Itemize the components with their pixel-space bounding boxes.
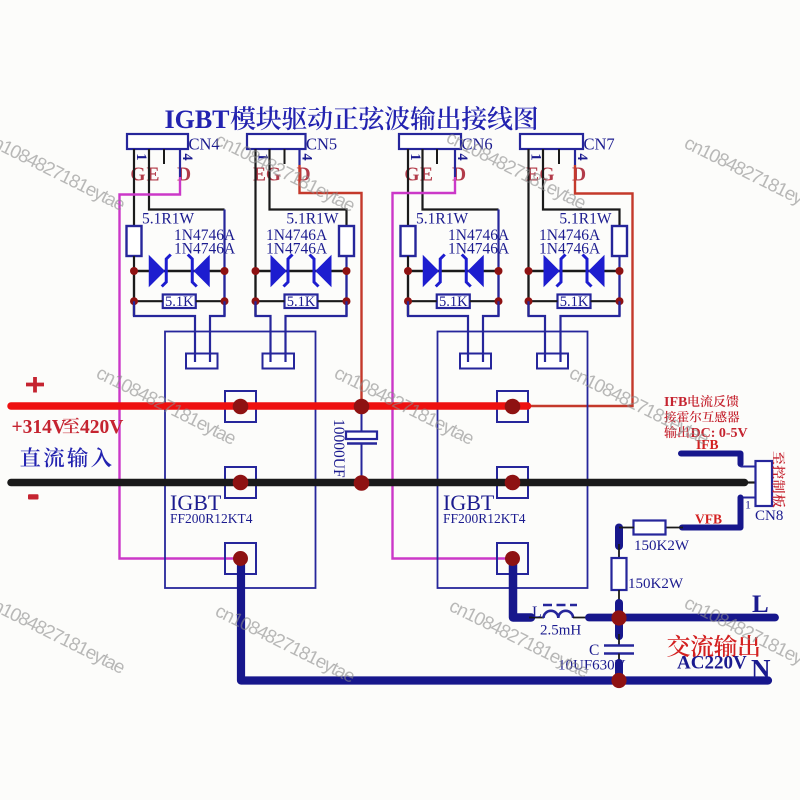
- wire CN7 D to +bus (red): [524, 165, 633, 406]
- junction CN5 gate-5.1K: [252, 297, 260, 305]
- wire CN4 emitter node vertical: [223, 210, 225, 317]
- CN5 pin 2: [269, 149, 271, 164]
- CN4 pin 1: [133, 149, 135, 164]
- IGBT1 midpoint terminal: [225, 467, 256, 498]
- junction CN6 gate-zener: [404, 267, 412, 275]
- zener diode 1N4746A right CN6: [468, 256, 483, 286]
- zener diode 1N4746A left CN6: [423, 256, 438, 286]
- label 交流输出: [667, 635, 759, 658]
- wire CN6 5.1K left lead: [408, 300, 437, 302]
- wire CN5 5.1K left lead: [256, 300, 285, 302]
- svg-text:cn1084827181eytae: cn1084827181eytae: [331, 362, 477, 449]
- wire -bus to CN8: [744, 481, 756, 483]
- junction CN5 gate-zener: [252, 267, 260, 275]
- CN7 pin 4: [574, 149, 576, 164]
- wire CN6 E to emitter node: [423, 149, 499, 210]
- N junction stub: [615, 663, 623, 674]
- junction IGBT2 midpoint: [505, 475, 521, 491]
- resistor 5.1K CN5: [285, 295, 318, 309]
- junction CN7 gate-zener: [525, 267, 533, 275]
- connector CN7: [520, 134, 583, 149]
- label IFB电流反馈: [664, 395, 739, 410]
- IGBT2 emitter terminal: [497, 543, 528, 574]
- wire CN6 D stub: [454, 149, 456, 177]
- IGBT2 gate terminal block 2: [537, 354, 568, 369]
- svg-text:cn1084827181eytae: cn1084827181eytae: [681, 592, 800, 679]
- zener diode 1N4746A right CN5: [316, 256, 331, 286]
- zener diode 1N4746A right CN4: [194, 256, 209, 286]
- wire CN7 D stub: [574, 149, 576, 165]
- wire CN5 resistor to gate node: [345, 256, 347, 316]
- wire to IGBT2 gate terminal block 1 pin 2: [483, 301, 499, 362]
- IGBT1 emitter terminal: [225, 543, 256, 574]
- wire CN7 E down: [527, 149, 529, 316]
- IGBT2 midpoint terminal: [497, 467, 528, 498]
- wire CN5 D to +bus (red): [300, 165, 362, 404]
- junction CN7 emitter-5.1K: [616, 297, 624, 305]
- wire 10000UF to -bus: [361, 444, 363, 484]
- wire CN4 G to resistor: [133, 149, 135, 226]
- resistor 5.1K CN4: [163, 295, 196, 309]
- IGBT module 2 FF200R12KT4 outline: [438, 332, 588, 589]
- zener diode 1N4746A right CN7: [589, 256, 604, 286]
- wire IGBT1 emitter to N line: [241, 559, 768, 681]
- CN6 pin 4: [454, 149, 456, 164]
- capacitor 10000UF plate+: [346, 432, 377, 440]
- svg-text:cn1084827181eytae: cn1084827181eytae: [212, 600, 358, 687]
- wire CN5 G over to resistor: [270, 149, 347, 226]
- junction CN5 emitter-zener: [343, 267, 351, 275]
- wire CN4 D to IGBT1 gate terminal (magenta): [120, 177, 237, 559]
- wire 150K to stub: [618, 590, 620, 604]
- resistor 150K2W horizontal: [634, 521, 666, 535]
- wire CN4 5.1K left lead: [134, 300, 163, 302]
- IGBT1 gate terminal block 1: [186, 354, 218, 369]
- wire CN4 right node: [223, 271, 225, 316]
- junction L line: [611, 610, 626, 625]
- CN7 pin 3: [558, 149, 560, 164]
- CN4 pin 3: [163, 149, 165, 164]
- wire CN6 zener row: [408, 270, 499, 272]
- label 输出DC 0-5V: [664, 426, 747, 441]
- label minus: [28, 494, 39, 499]
- capacitor C plate bottom: [604, 652, 634, 655]
- IGBT module 1 FF200R12KT4 outline: [165, 332, 316, 589]
- svg-text:cn1084827181eytae: cn1084827181eytae: [0, 128, 128, 215]
- zener diode 1N4746A left CN4: [149, 256, 164, 286]
- CN4 pin 2: [148, 149, 150, 164]
- VFB chain stub upper: [615, 528, 623, 547]
- resistor 5.1R1W CN7: [612, 226, 627, 256]
- wire CN4 resistor to gate node: [133, 256, 135, 316]
- wire to IGBT2 gate terminal block 2 pin 1: [529, 301, 546, 362]
- wire CN4 5.1K right lead: [196, 300, 225, 302]
- IGBT1 collector terminal: [225, 391, 256, 422]
- junction CN6 emitter-5.1K: [495, 297, 503, 305]
- wire CN5 left node: [254, 271, 256, 316]
- junction CN6 emitter-zener: [495, 267, 503, 275]
- wire CN6 D to IGBT2 gate terminal (magenta): [393, 177, 509, 559]
- CN5 pin 1: [255, 149, 257, 164]
- resistor 150K2W vertical: [612, 558, 627, 590]
- IGBT2 gate terminal block 1: [460, 354, 491, 369]
- CN5 pin 3: [284, 149, 286, 164]
- label +314V至420V: [12, 417, 124, 438]
- junction 10000UF plus: [354, 399, 370, 415]
- wire to IGBT1 gate terminal block 2 pin 1: [256, 301, 271, 362]
- wire CN6 resistor to gate node: [407, 256, 409, 316]
- junction CN6 gate-5.1K: [404, 297, 412, 305]
- wire to IGBT1 gate terminal block 1 pin 2: [210, 301, 225, 362]
- junction CN7 emitter-zener: [616, 267, 624, 275]
- resistor 5.1K CN6: [437, 295, 470, 309]
- wire CN6 left node: [407, 271, 409, 316]
- VFB chain stub lower: [615, 603, 623, 636]
- svg-text:cn1084827181eytae: cn1084827181eytae: [446, 595, 592, 682]
- wire to IGBT2 gate terminal block 2 pin 2: [561, 301, 620, 362]
- CN5 pin 4: [299, 149, 301, 164]
- +314V DC bus (red): [11, 402, 528, 410]
- junction CN7 gate-5.1K: [525, 297, 533, 305]
- wire VFB to 150K2W: [666, 527, 683, 529]
- svg-text:cn1084827181eytae: cn1084827181eytae: [443, 126, 589, 213]
- CN7 pin 2: [542, 149, 544, 164]
- IFB wire: [681, 454, 741, 465]
- junction IGBT1 emitter: [233, 551, 248, 566]
- capacitor 10000UF plate-: [347, 442, 377, 445]
- wire C to N junction: [618, 654, 620, 667]
- junction CN4 emitter-zener: [221, 267, 229, 275]
- resistor 5.1R1W CN5: [339, 226, 354, 256]
- junction IGBT1 midpoint: [233, 475, 249, 491]
- IGBT1 gate terminal block 2: [263, 354, 295, 369]
- label 接霍尔互感器: [664, 411, 739, 423]
- wire CN7 5.1K left lead: [529, 300, 558, 302]
- svg-text:cn1084827181eytae: cn1084827181eytae: [0, 591, 128, 678]
- wire CN7 resistor to gate node: [618, 256, 620, 316]
- wire CN5 D stub: [298, 149, 300, 165]
- connector CN8: [756, 461, 773, 506]
- wire CN6 right node: [497, 271, 499, 316]
- junction IGBT1 collector: [233, 399, 249, 415]
- resistor 5.1K CN7: [558, 295, 591, 309]
- wire to IGBT2 gate terminal block 1 pin 1: [408, 301, 468, 362]
- wire CN7 5.1K right lead: [591, 300, 620, 302]
- junction IGBT2 emitter: [505, 551, 520, 566]
- wire CN5 E down: [254, 149, 256, 316]
- wire to inductor: [529, 617, 544, 619]
- junction CN4 gate-zener: [130, 267, 138, 275]
- wire inductor to L junction: [573, 617, 590, 619]
- DC minus bus (black): [11, 479, 745, 487]
- wire CN7 G over to resistor: [543, 149, 620, 226]
- junction CN4 gate-5.1K: [130, 297, 138, 305]
- wire CN4 left node: [133, 271, 135, 316]
- wire CN5 right node: [345, 271, 347, 316]
- connector CN4: [127, 134, 188, 149]
- wire VFB stub to 150K: [618, 544, 620, 559]
- svg-text:cn1084827181eytae: cn1084827181eytae: [212, 129, 358, 216]
- wire CN6 G to resistor: [407, 149, 409, 226]
- label 至控制板: [772, 452, 785, 508]
- wire CN7 right node: [618, 271, 620, 316]
- wire to IGBT1 gate terminal block 2 pin 2: [286, 301, 347, 362]
- zener diode 1N4746A left CN5: [271, 256, 286, 286]
- wire 150K2W to chain: [619, 527, 634, 529]
- CN6 pin 1: [407, 149, 409, 164]
- IGBT2 collector terminal: [497, 391, 528, 422]
- svg-text:cn1084827181eytae: cn1084827181eytae: [93, 362, 239, 449]
- wire stub to capacitor C: [618, 634, 620, 645]
- VFB wire: [682, 498, 741, 528]
- label 直流输入: [20, 447, 111, 467]
- label plus: [26, 383, 44, 387]
- wire +bus to 10000UF: [361, 406, 363, 432]
- wire IGBT2 emitter down: [513, 559, 531, 618]
- junction CN4 emitter-5.1K: [221, 297, 229, 305]
- svg-text:cn1084827181eytae: cn1084827181eytae: [566, 362, 712, 449]
- wire CN6 5.1K right lead: [470, 300, 499, 302]
- L output line: [589, 614, 775, 622]
- title label IGBT模块驱动正弦波输出接线图: [165, 105, 538, 134]
- junction IGBT2 collector: [505, 399, 521, 415]
- inductor L 2.5mH: [544, 611, 574, 618]
- junction 10000UF minus: [354, 475, 370, 491]
- capacitor C plate top: [604, 644, 634, 647]
- wire to IGBT1 gate terminal block 1 pin 1: [134, 301, 195, 362]
- wire CN4 zener row: [134, 270, 225, 272]
- resistor 5.1R1W CN4: [127, 226, 142, 256]
- junction N line: [611, 673, 626, 688]
- wire IFB to CN8: [741, 466, 757, 468]
- wire CN8 pin3 to VFB: [741, 497, 757, 499]
- CN7 pin 1: [528, 149, 530, 164]
- resistor 5.1R1W CN6: [401, 226, 416, 256]
- wire CN4 D stub: [179, 149, 181, 177]
- connector CN6: [399, 134, 461, 149]
- CN6 pin 3: [436, 149, 438, 164]
- wire CN5 5.1K right lead: [318, 300, 347, 302]
- wire CN7 left node: [527, 271, 529, 316]
- connector CN5: [247, 134, 306, 149]
- junction CN5 emitter-5.1K: [343, 297, 351, 305]
- CN4 pin 4: [179, 149, 181, 164]
- CN6 pin 2: [422, 149, 424, 164]
- wire CN4 E to emitter node: [149, 149, 225, 210]
- wire CN6 emitter node vertical: [497, 210, 499, 317]
- wire CN7 zener row: [529, 270, 620, 272]
- zener diode 1N4746A left CN7: [544, 256, 559, 286]
- wire CN5 zener row: [256, 270, 347, 272]
- svg-text:cn1084827181eytae: cn1084827181eytae: [681, 132, 800, 219]
